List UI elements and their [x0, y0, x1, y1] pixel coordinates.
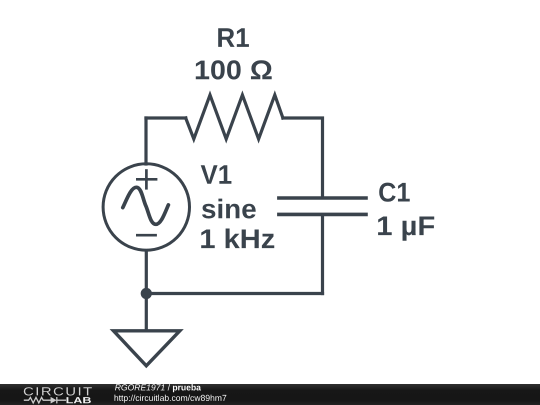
footer bar [0, 384, 540, 405]
voltage source V1 circle [103, 164, 189, 250]
V1 sine waveform glyph [123, 187, 169, 224]
label R1 [218, 28, 249, 47]
footer credit line 2: url [115, 395, 227, 403]
V1 minus sign [136, 234, 157, 237]
junction node dot [141, 288, 152, 299]
resistor R1 zigzag body [186, 95, 283, 139]
wire: V1 bottom to ground junction [145, 251, 148, 330]
CircuitLab logo: CIRCUIT wordmark [24, 387, 92, 395]
label C1 value 1 µF [378, 217, 434, 241]
wire: from C1 bottom plate down to bottom-right corner [321, 215, 324, 294]
CircuitLab logo: diode triangle [51, 397, 57, 404]
CircuitLab logo: LAB wordmark [67, 397, 91, 403]
label V1 type sine [202, 199, 256, 219]
wire: bottom horizontal from junction to bottom-right corner [146, 292, 322, 295]
CircuitLab logo: resistor-diode squiggle [24, 397, 66, 403]
ground symbol [114, 331, 180, 366]
V1 plus sign [136, 169, 157, 189]
capacitor C1 top plate [277, 196, 368, 200]
footer credit line 1: RGORE1971 / prueba [115, 384, 201, 392]
label R1 value 100 Ω [196, 60, 272, 79]
label V1 value 1 kHz [201, 229, 274, 249]
label C1 [379, 183, 410, 202]
wire: top-left vertical from resistor lead down to V1 top [144, 118, 147, 164]
capacitor C1 bottom plate [277, 213, 368, 217]
wire: top lead right of R1 to top-right corner and down to C1 top plate [283, 118, 323, 197]
label V1 [201, 165, 232, 184]
wire: top lead left of R1 [146, 116, 186, 119]
